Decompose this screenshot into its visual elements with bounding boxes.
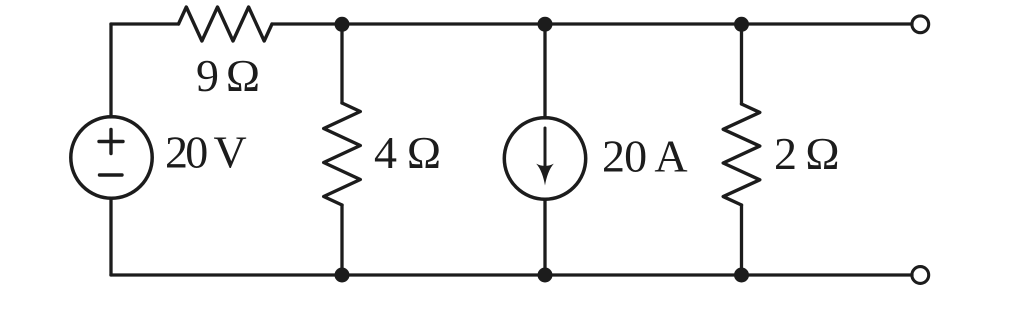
wire top from resistor R1 to right terminal [272, 22, 912, 25]
voltage source V1 circle [71, 117, 152, 198]
wire left vertical upper [109, 24, 112, 117]
junction dot bottom node F [734, 268, 749, 283]
wire current source lower [543, 200, 546, 275]
voltage source minus sign [100, 173, 123, 176]
wire 4ohm upper [340, 24, 343, 103]
junction dot top node A [335, 17, 350, 32]
junction dot bottom node D [335, 268, 350, 283]
svg-text:2 Ω: 2 Ω [774, 128, 840, 179]
wire bottom [111, 273, 912, 276]
svg-text:20 A: 20 A [602, 130, 688, 181]
wire 4ohm lower [340, 205, 343, 275]
terminal bottom-right [912, 267, 929, 284]
wire 2ohm upper [740, 24, 743, 104]
wire left vertical lower [109, 199, 112, 275]
voltage source plus sign [99, 130, 123, 154]
svg-text:9 Ω: 9 Ω [196, 50, 260, 101]
junction dot bottom node E [538, 268, 553, 283]
current source arrowhead [536, 164, 554, 186]
resistor R2 4ohm vertical [324, 103, 361, 205]
wire 2ohm lower [740, 205, 743, 275]
svg-text:20 V: 20 V [165, 127, 247, 178]
resistor R3 2ohm vertical [723, 104, 760, 205]
terminal top-right [912, 16, 929, 33]
wire top-left segment [111, 22, 179, 25]
junction dot top node B [538, 17, 553, 32]
svg-text:4 Ω: 4 Ω [374, 127, 441, 178]
junction dot top node C [734, 17, 749, 32]
current source arrow [544, 128, 547, 176]
resistor R1 9ohm horizontal [179, 7, 273, 41]
wire current source upper [543, 24, 546, 118]
current source I1 circle [504, 118, 585, 199]
